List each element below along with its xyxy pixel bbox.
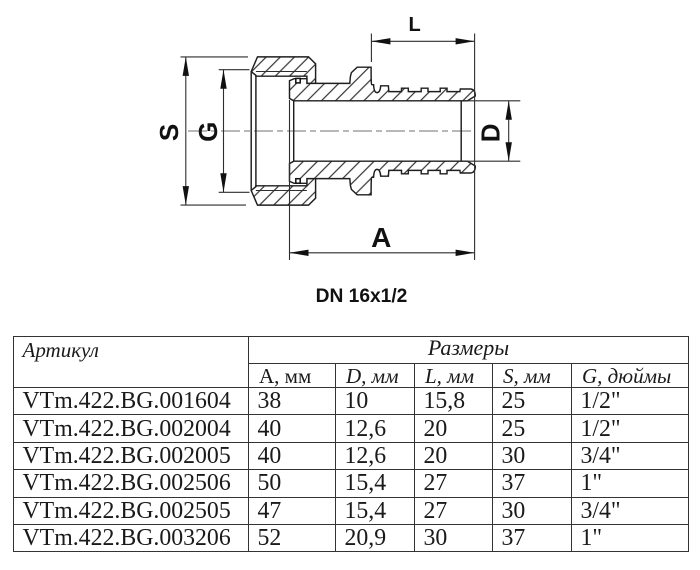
- dimension L extension line left: [370, 34, 372, 63]
- fitting body, top wall section: [290, 67, 476, 101]
- shared extension line right (L and A): [474, 34, 476, 261]
- union nut section, bottom band: [251, 178, 315, 205]
- svg-text:A: A: [371, 222, 391, 253]
- svg-text:D: D: [476, 123, 506, 142]
- nut back wall: [251, 72, 256, 191]
- bore entrance chamfer edge: [293, 101, 295, 161]
- dimension A extension line left: [289, 100, 291, 260]
- nut thread relief line top: [256, 71, 307, 73]
- fitting body, bottom wall section: [290, 161, 476, 195]
- dimension L line: [371, 40, 474, 42]
- dimension D extension lines: [465, 101, 520, 161]
- tail end face: [460, 101, 462, 161]
- dimension S extension lines: [181, 57, 249, 205]
- dimension S line: [185, 57, 187, 205]
- svg-text:G: G: [193, 122, 223, 142]
- o-ring top: [296, 78, 300, 83]
- specification table: [13, 336, 689, 552]
- o-ring bottom: [296, 179, 300, 184]
- dimension A arrows: [290, 250, 309, 256]
- dimension G arrows: [220, 70, 226, 89]
- dimension G extension lines: [219, 70, 250, 193]
- dimension D arrows: [506, 101, 512, 120]
- svg-text:L: L: [408, 14, 420, 36]
- dimension L arrows: [371, 38, 390, 44]
- dimension G line: [223, 70, 225, 193]
- dimension S arrows: [183, 57, 189, 76]
- dimension A line: [290, 252, 475, 254]
- centerline: [188, 130, 474, 132]
- svg-text:DN 16x1/2: DN 16x1/2: [316, 286, 408, 307]
- union nut section, top band: [251, 57, 315, 84]
- nut thread relief line bottom: [256, 190, 307, 192]
- svg-text:S: S: [154, 124, 184, 141]
- dimension D line: [508, 101, 510, 161]
